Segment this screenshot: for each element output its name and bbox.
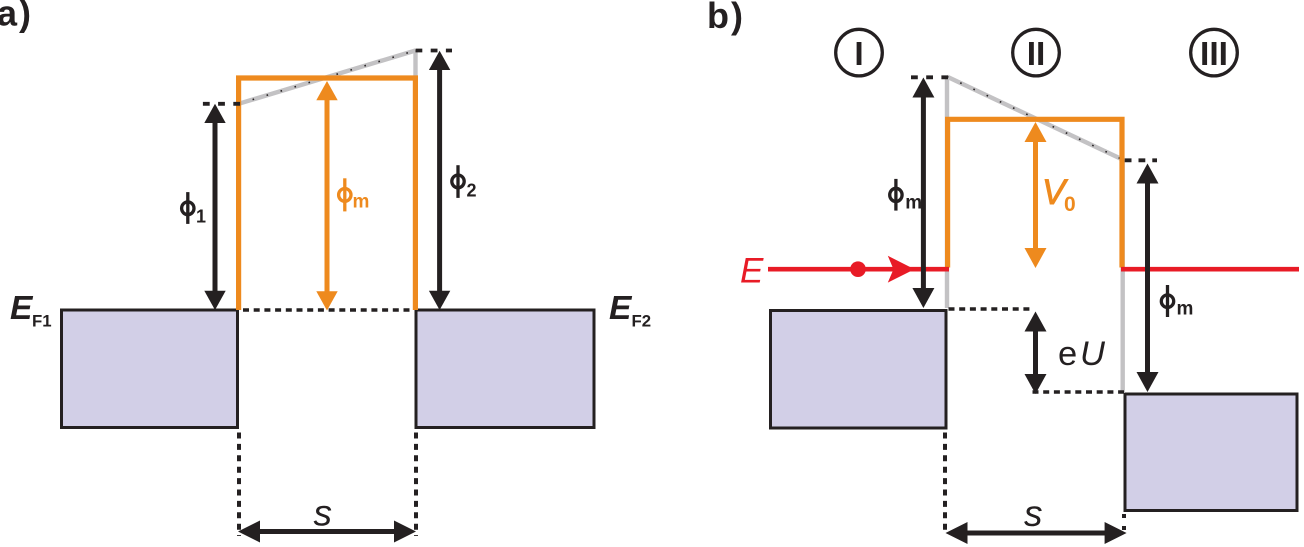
phi2 double arrow (429, 51, 450, 310)
phim orange double arrow (panel a) (316, 81, 337, 311)
phi1 double arrow (204, 104, 225, 310)
svg-text:b): b) (707, 0, 745, 36)
dotted line from eU arrow to right electrode top (panel b) (1033, 390, 1125, 394)
svg-text:F2: F2 (632, 311, 652, 330)
label phim right (panel b) (1161, 285, 1173, 317)
svg-text:s: s (314, 493, 333, 534)
tiny dotted overlay along tilted top (panel a) (239, 51, 416, 104)
region II circle (1013, 29, 1060, 76)
label phi1 (182, 192, 194, 224)
svg-text:s: s (1024, 493, 1043, 534)
eU double arrow (1025, 312, 1047, 395)
svg-text:e: e (1058, 335, 1077, 373)
gray tilted barrier top (panel b) (947, 77, 1124, 160)
svg-text:III: III (1200, 36, 1228, 73)
V0 orange double arrow (1025, 122, 1047, 268)
label phi2 (452, 165, 464, 198)
svg-text:U: U (1080, 335, 1106, 373)
svg-text:0: 0 (1064, 193, 1076, 216)
svg-text:1: 1 (196, 207, 206, 227)
gray original barrier left edge (panel b) (945, 77, 949, 308)
red arrowhead on E line (888, 256, 915, 283)
svg-text:F1: F1 (32, 311, 52, 330)
dashed vertical gap edge left (panel a) (237, 433, 241, 537)
svg-text:m: m (905, 193, 922, 214)
svg-text:E: E (10, 290, 34, 327)
orange barrier outline (panel b) (948, 119, 1122, 267)
svg-text:m: m (1177, 299, 1194, 320)
svg-text:2: 2 (467, 181, 477, 201)
region I circle (836, 29, 883, 76)
svg-text:II: II (1027, 36, 1046, 73)
electrode rectangle left (panel b) (771, 311, 947, 429)
svg-text:I: I (854, 36, 863, 73)
red energy line E, left segment (768, 267, 949, 272)
svg-text:E: E (740, 252, 764, 291)
gray barrier right edge upper segment (panel a) (413, 51, 417, 79)
phim right double arrow (panel b) (1137, 164, 1159, 393)
region III circle (1191, 29, 1238, 76)
dotted Fermi baseline between electrodes (panel a) (243, 308, 412, 312)
phim left double arrow (panel b) (912, 78, 934, 309)
label phim (orange, panel a) (339, 178, 351, 211)
svg-text:m: m (353, 192, 370, 213)
gray original barrier right edge (panel b) (1120, 160, 1124, 393)
label phim left (panel b) (890, 179, 902, 211)
tiny dotted overlay along tilted top (panel b) (947, 77, 1124, 160)
short dashed vertical below right electrode (panel b) (1122, 514, 1126, 531)
dotted line from left electrode top to eU arrow (panel b) (949, 307, 1033, 311)
s double arrow (panel a) (238, 521, 416, 543)
svg-text:a): a) (0, 0, 33, 34)
dashed vertical below left electrode (panel b) (943, 433, 947, 536)
dashed tick at top of phi1 arrow (203, 102, 241, 106)
orange rectangular barrier outline (panel a) (239, 78, 416, 310)
gray tilted barrier top (panel a) (239, 51, 416, 104)
dashed tick at top of phi2 arrow (416, 49, 453, 53)
electrode rectangle right (panel b) (1125, 394, 1297, 511)
dashed tick at top of phim right arrow (panel b) (1125, 158, 1157, 162)
dashed tick at top of phim left arrow (panel b) (911, 75, 948, 79)
s double arrow (panel b) (946, 522, 1127, 544)
svg-text:E: E (609, 290, 633, 327)
red energy line E, right segment (1121, 267, 1299, 272)
electrode 2 rectangle (right metal, panel a) (416, 310, 594, 428)
red electron dot (850, 261, 866, 277)
electrode 1 rectangle (left metal, panel a) (62, 310, 238, 428)
dashed vertical gap edge right (panel a) (414, 433, 418, 537)
